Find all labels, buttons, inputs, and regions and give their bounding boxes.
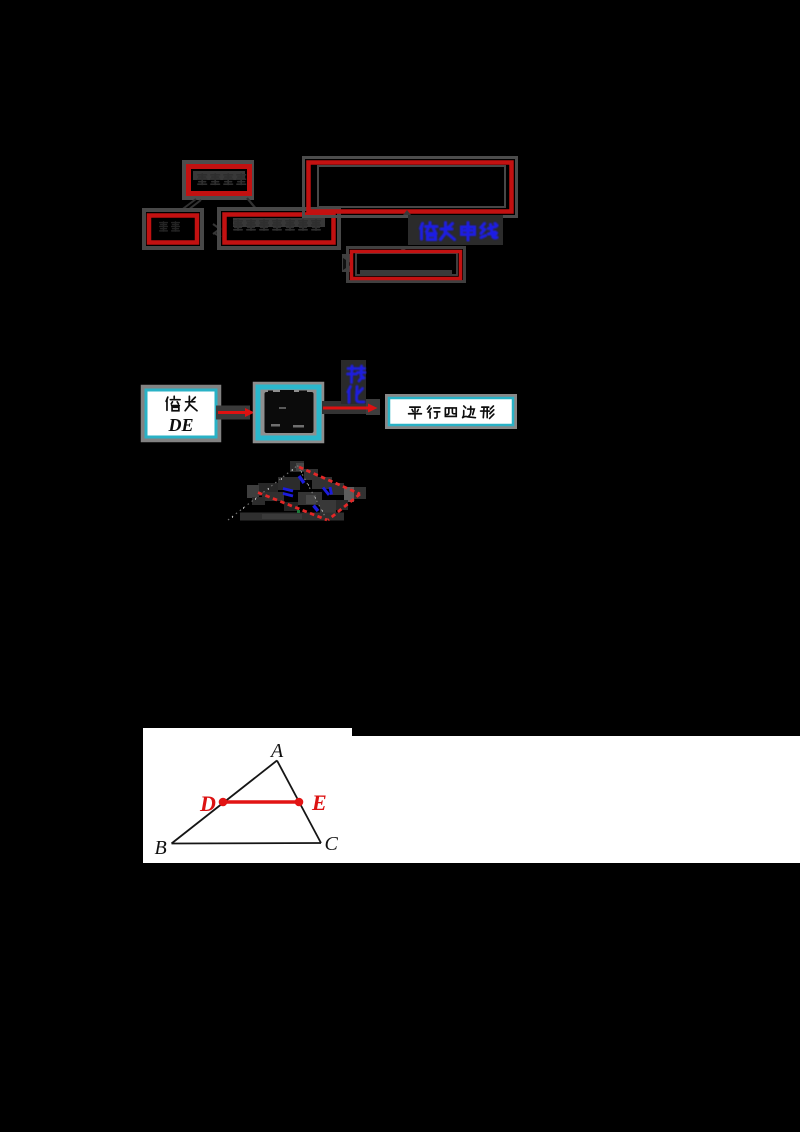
red dashed F to C: [328, 494, 360, 520]
blue label B1 text: [421, 223, 498, 241]
svg-text:C: C: [325, 833, 339, 855]
point E: [295, 798, 304, 807]
base halo band: [240, 513, 344, 521]
arrow down to R5: [397, 246, 410, 251]
F2 halo: [255, 384, 323, 442]
svg-text:B: B: [155, 837, 167, 859]
box R4 halo: [304, 158, 517, 217]
arrow2 halo: [322, 401, 368, 414]
F3 text 平行四边形: [409, 406, 494, 419]
svg-text:D: D: [199, 791, 216, 816]
svg-text:E: E: [311, 790, 327, 815]
line A to C speckled: [298, 466, 328, 521]
F2 interior text blobs: [265, 390, 314, 433]
side AB: [172, 761, 278, 844]
box R5: [352, 252, 461, 279]
blue marks near E: [323, 487, 332, 495]
line B to A speckled: [228, 466, 298, 521]
box R3 interior smear: [233, 218, 325, 227]
box R4: [309, 163, 512, 212]
svg-text:DE: DE: [167, 415, 193, 435]
svg-text:A: A: [269, 740, 284, 762]
artifact blocks: [247, 461, 366, 513]
arrow into R5: [342, 254, 352, 272]
top cluster of red boxes: [0, 0, 800, 560]
F1 halo: [143, 387, 219, 440]
F3 box: [389, 398, 513, 425]
box R1 halo: [184, 162, 252, 198]
blue tick on EC: [314, 506, 319, 512]
blue tick on AE: [299, 476, 304, 483]
green dot: [297, 510, 300, 513]
F3 halo: [387, 396, 515, 427]
point D: [219, 798, 228, 807]
flowchart texts: [0, 350, 800, 560]
box R2: [149, 216, 197, 243]
connector R1 to R3: [247, 198, 257, 210]
F2 box: [258, 387, 319, 438]
connector R1 to R2: [180, 199, 201, 211]
side AC: [277, 761, 321, 844]
red dashed D to C: [258, 493, 327, 521]
box R5 interior smear: [360, 270, 452, 276]
box R5 halo: [348, 248, 465, 282]
red dashed A to F: [299, 467, 360, 494]
arrow1: [218, 411, 246, 414]
box R1: [189, 167, 250, 194]
R1 interior text halo: [198, 174, 246, 185]
small parallelogram figure: [210, 445, 410, 545]
red segment DE: [223, 800, 299, 804]
flowchart: [0, 350, 800, 560]
box R2 halo: [144, 210, 202, 248]
B2 vertical label patch: [341, 360, 366, 404]
arrow2: [323, 407, 369, 410]
arrow1 halo: [216, 406, 250, 420]
F1 text 倍长: [166, 396, 197, 410]
blue double tick near D: [283, 489, 293, 497]
triangle figure: [140, 725, 360, 870]
F1 box: [146, 390, 216, 437]
white band right part: [352, 736, 800, 863]
arrow up to R4: [403, 210, 411, 215]
CJK-like glyph layer: [0, 0, 800, 560]
box R5 inner gray outline: [356, 253, 457, 275]
B2 vertical text 转化: [348, 366, 366, 403]
box R1 interior smear: [193, 171, 245, 180]
white band left part: [143, 728, 352, 863]
box R2 interior smear: [160, 222, 180, 231]
brace between R2 and R3: [213, 224, 221, 237]
base BC: [172, 842, 322, 845]
blue label patch: [408, 215, 503, 245]
box R3: [225, 215, 334, 243]
R3 interior text halo: [234, 220, 320, 230]
box R3 halo: [219, 209, 339, 248]
box R4 inner gray outline: [318, 166, 505, 207]
